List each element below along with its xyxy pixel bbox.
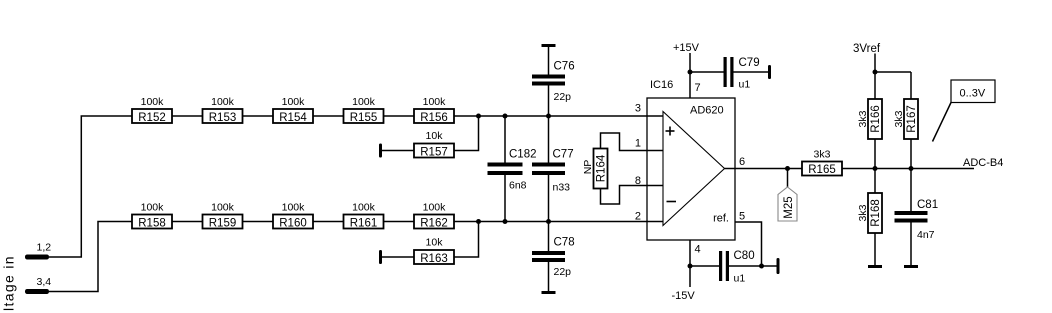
svg-text:100k: 100k xyxy=(423,201,447,213)
junction -15V xyxy=(688,264,693,269)
resistor R162 xyxy=(414,201,454,229)
svg-text:22p: 22p xyxy=(554,91,572,103)
svg-text:C77: C77 xyxy=(553,149,574,161)
svg-text:-15V: -15V xyxy=(672,290,696,302)
resistor R161 xyxy=(344,201,384,229)
capacitor C77 xyxy=(532,116,574,222)
wire R163 up to row D xyxy=(454,222,479,258)
svg-text:3,4: 3,4 xyxy=(37,276,52,288)
svg-text:R154: R154 xyxy=(279,112,307,124)
svg-text:6: 6 xyxy=(739,156,745,168)
junction output M25 xyxy=(785,166,790,171)
-15V stub down xyxy=(689,266,691,287)
pin 4 stub xyxy=(689,240,691,266)
wire R158-R159 xyxy=(172,221,203,223)
capacitor C80 xyxy=(719,250,777,284)
svg-text:NP: NP xyxy=(582,160,594,175)
svg-text:u1: u1 xyxy=(739,79,751,91)
svg-text:ADC-B4: ADC-B4 xyxy=(963,157,1003,169)
svg-text:C78: C78 xyxy=(554,237,575,249)
svg-text:5: 5 xyxy=(739,211,745,223)
resistor R165 xyxy=(802,149,842,177)
svg-text:R156: R156 xyxy=(420,112,448,124)
callout leader line xyxy=(933,103,952,142)
capacitor C81 xyxy=(895,169,939,266)
resistor R152 xyxy=(132,96,172,124)
pin 3 stub xyxy=(647,115,663,117)
junction C182 row D xyxy=(503,219,508,224)
svg-text:M25: M25 xyxy=(783,196,795,218)
svg-text:100k: 100k xyxy=(282,96,306,108)
svg-text:22p: 22p xyxy=(554,266,572,278)
junction C182 row A xyxy=(503,114,508,119)
resistor R160 xyxy=(273,201,313,229)
svg-text:n33: n33 xyxy=(553,182,571,194)
svg-text:100k: 100k xyxy=(352,201,376,213)
svg-text:C80: C80 xyxy=(734,250,755,262)
-15V rail wire xyxy=(690,265,719,267)
resistor R168 xyxy=(868,169,882,266)
ground bar above C76 xyxy=(542,44,556,47)
callout box 0..3V xyxy=(951,80,995,103)
op-amp triangle xyxy=(663,112,725,226)
svg-text:R152: R152 xyxy=(138,112,166,124)
wire from pad 1,2 up to row A xyxy=(49,116,132,257)
resistor R166 xyxy=(868,72,882,169)
svg-text:+15V: +15V xyxy=(673,42,700,54)
junction C76 row A xyxy=(546,114,551,119)
svg-text:3k3: 3k3 xyxy=(814,149,831,161)
svg-text:100k: 100k xyxy=(211,96,235,108)
resistor R158 xyxy=(132,201,172,229)
svg-text:ltage in: ltage in xyxy=(1,255,17,311)
svg-text:10k: 10k xyxy=(426,236,444,248)
junction R166 output row xyxy=(873,166,878,171)
junction row D x478.5 xyxy=(476,219,481,224)
junction C77 row D xyxy=(546,219,551,224)
terminal pad 3,4 xyxy=(25,289,49,294)
svg-text:3k3: 3k3 xyxy=(857,204,869,221)
svg-text:3Vref: 3Vref xyxy=(853,43,881,55)
svg-text:R160: R160 xyxy=(279,217,307,229)
pin 5 wire to -15V rail xyxy=(735,222,762,266)
svg-text:R164: R164 xyxy=(595,154,607,182)
svg-text:R167: R167 xyxy=(906,105,918,133)
svg-text:C182: C182 xyxy=(509,149,537,161)
wire from pad 3,4 up to row D xyxy=(49,222,132,292)
resistor R155 xyxy=(344,96,384,124)
test pad right of C80 xyxy=(777,258,780,274)
svg-text:3k3: 3k3 xyxy=(857,110,869,127)
svg-text:100k: 100k xyxy=(141,201,165,213)
wire R157 up to row A xyxy=(454,116,479,151)
svg-text:2: 2 xyxy=(635,210,641,222)
svg-text:R165: R165 xyxy=(808,164,836,176)
svg-text:4: 4 xyxy=(695,244,701,256)
ground bar below R168 xyxy=(868,265,882,268)
3Vref stub xyxy=(874,54,876,73)
svg-text:R158: R158 xyxy=(138,217,166,229)
junction pin5/-15V rail xyxy=(759,264,764,269)
pin 6 wire from apex xyxy=(725,168,803,170)
svg-text:R161: R161 xyxy=(350,217,378,229)
ground bar below C81 xyxy=(904,265,918,268)
ground bar below C78 xyxy=(542,291,556,294)
svg-text:10k: 10k xyxy=(426,130,444,142)
wire R152-R153 xyxy=(172,115,203,117)
resistor R153 xyxy=(203,96,243,124)
capacitor C79 xyxy=(724,57,769,91)
svg-text:1: 1 xyxy=(635,138,641,150)
svg-text:C79: C79 xyxy=(739,57,760,69)
wire R161-R162 xyxy=(384,221,415,223)
junction +15V xyxy=(688,70,693,75)
test pad for R163 xyxy=(379,250,382,264)
svg-text:6n8: 6n8 xyxy=(509,180,527,192)
svg-text:100k: 100k xyxy=(141,96,165,108)
wire junction to M25 tag xyxy=(787,169,789,188)
terminal pad 1,2 xyxy=(25,255,49,260)
svg-text:u1: u1 xyxy=(734,273,746,285)
junction 3Vref xyxy=(873,70,878,75)
pin 7 stub xyxy=(689,72,691,98)
junction row A x478.5 xyxy=(476,114,481,119)
svg-text:C81: C81 xyxy=(917,199,938,211)
test pad right of C79 xyxy=(768,65,771,79)
resistor R157 xyxy=(414,130,454,159)
junction R167 output row xyxy=(909,166,914,171)
svg-text:R157: R157 xyxy=(420,146,448,158)
op-amp IC16 AD620 box xyxy=(647,98,735,240)
M25 tag xyxy=(778,187,797,221)
wire pad to R157 xyxy=(382,150,414,152)
wire R164 top elbow to pin 1 xyxy=(601,133,648,151)
capacitor C182 xyxy=(488,116,537,222)
svg-text:0..3V: 0..3V xyxy=(960,88,986,100)
wire pad to R163 xyxy=(382,256,414,258)
wire row A from R156 to IC pin 3 xyxy=(454,115,647,117)
capacitor C78 xyxy=(532,222,575,292)
svg-text:IC16: IC16 xyxy=(650,79,673,91)
wire R155-R156 xyxy=(384,115,415,117)
svg-text:R168: R168 xyxy=(870,199,882,227)
capacitor C76 xyxy=(532,47,575,116)
resistor R167 xyxy=(904,72,918,169)
wire R159-R160 xyxy=(243,221,274,223)
resistor R156 xyxy=(414,96,454,124)
resistor R164 xyxy=(594,149,608,189)
svg-text:AD620: AD620 xyxy=(690,105,724,117)
svg-text:R166: R166 xyxy=(870,105,882,133)
+15V rail wire xyxy=(690,71,724,73)
resistor R163 xyxy=(414,236,454,265)
svg-text:R153: R153 xyxy=(209,112,237,124)
pin 8 stub xyxy=(647,185,663,187)
wire R164 bottom elbow to pin 8 xyxy=(601,186,648,205)
svg-text:100k: 100k xyxy=(211,201,235,213)
svg-text:100k: 100k xyxy=(423,96,447,108)
+15V stub up xyxy=(689,53,691,72)
wire row D from R162 to IC pin 2 xyxy=(454,221,647,223)
svg-text:R162: R162 xyxy=(420,217,448,229)
svg-text:R155: R155 xyxy=(350,112,378,124)
svg-text:8: 8 xyxy=(635,175,641,187)
wire R154-R155 xyxy=(313,115,344,117)
svg-text:100k: 100k xyxy=(282,201,306,213)
resistor R159 xyxy=(203,201,243,229)
wire R153-R154 xyxy=(243,115,274,117)
svg-text:100k: 100k xyxy=(352,96,376,108)
svg-text:3: 3 xyxy=(635,103,641,115)
3Vref rail to R167 xyxy=(875,71,911,73)
resistor R154 xyxy=(273,96,313,124)
test pad for R157 xyxy=(379,144,382,158)
pin 1 stub xyxy=(647,150,663,152)
svg-text:R159: R159 xyxy=(209,217,237,229)
svg-text:R163: R163 xyxy=(420,253,448,265)
svg-text:C76: C76 xyxy=(554,61,575,73)
pin 2 stub xyxy=(647,221,663,223)
wire R160-R161 xyxy=(313,221,344,223)
wire R165 to 3Vref column xyxy=(842,168,974,170)
svg-text:4n7: 4n7 xyxy=(917,229,935,241)
svg-text:7: 7 xyxy=(695,82,701,94)
svg-text:1,2: 1,2 xyxy=(37,242,52,254)
svg-text:3k3: 3k3 xyxy=(893,110,905,127)
svg-text:ref.: ref. xyxy=(713,213,729,225)
